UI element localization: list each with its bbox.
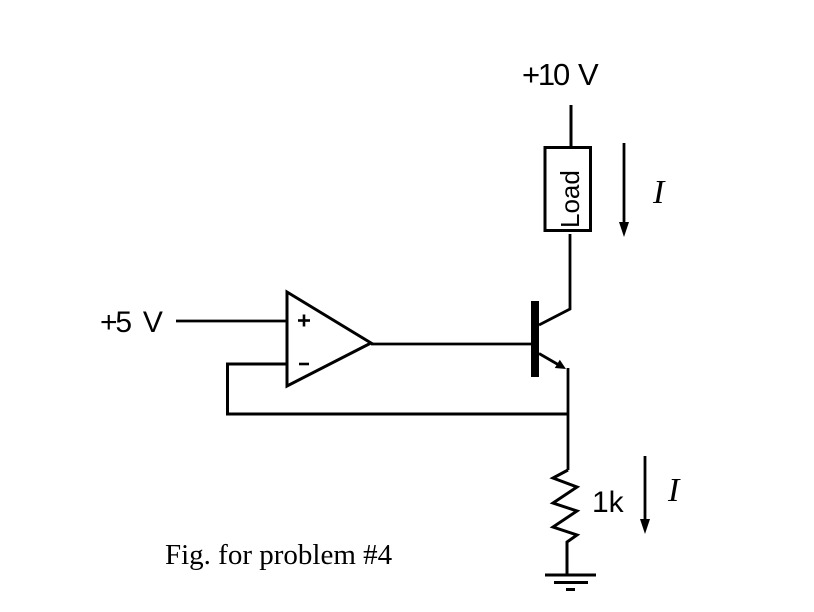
load (Load box) [545,148,591,231]
op-amp U1 [287,292,371,386]
wire feedback from - input down and right to emitter node [228,364,569,414]
ground [545,575,596,590]
wire op-amp output to Q1 base [371,343,531,346]
label I (load current) [652,174,666,211]
node +5V label [100,306,163,339]
wire +5V to op-amp + input [176,320,287,323]
transistor Q1 collector lead [539,234,570,325]
transistor Q1 base bar [531,301,539,377]
svg-text:+10V: +10V [522,57,599,92]
caption Fig. for problem #4 [165,539,393,571]
svg-text:I: I [667,472,681,509]
current arrow I (emitter current) [640,456,650,534]
resistor R1 1k zigzag [553,470,577,575]
current arrow I (load current) [619,143,629,237]
label I (emitter current) [667,472,681,509]
svg-text:1k: 1k [592,486,625,519]
transistor Q1 emitter lead with arrow [539,354,566,370]
svg-text:I: I [652,174,666,211]
svg-text:Fig. for problem #4: Fig. for problem #4 [165,539,393,571]
op-amp inverting input marker - [299,363,309,366]
wire +10V supply to load [570,105,573,147]
label 1k [592,486,625,519]
node +10V label [522,57,599,92]
svg-text:+5V: +5V [100,306,163,339]
wire emitter node down to resistor [567,368,570,470]
op-amp non-inverting input marker + [298,315,310,327]
svg-text:Load: Load [555,170,585,228]
